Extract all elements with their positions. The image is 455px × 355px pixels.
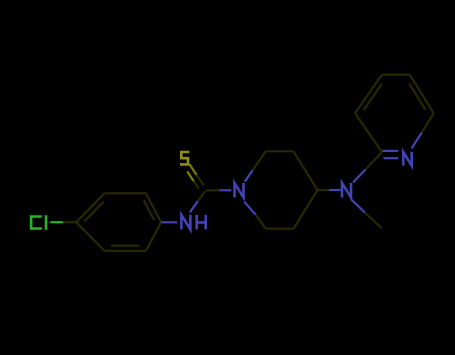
- amine N label: [342, 183, 351, 198]
- benzene double bond inner line C5=C6: [111, 245, 139, 247]
- pyridine bond C5-C4 top edge: [382, 73, 410, 75]
- bond C4 benzene - NH: [161, 221, 177, 223]
- benzene bond C3-C4: [146, 193, 161, 222]
- benzene double bond inner line C1=C2: [84, 202, 103, 222]
- benzene bond C6-C1: [76, 222, 104, 251]
- pyridine bond N1-C6: [412, 113, 434, 148]
- piperidine bond C6-N1: [244, 202, 265, 229]
- benzene bond C2-C3 top edge: [105, 192, 146, 194]
- benzene double bond inner line C3=C4: [144, 200, 154, 220]
- amide NH label: [181, 215, 205, 230]
- bond N amine - methyl CH3: [351, 199, 382, 229]
- bond C4 piperidine - N amine: [318, 189, 341, 191]
- benzene bond C5-C6 bottom edge: [105, 250, 146, 252]
- pyridine bond C6-C5: [410, 75, 434, 114]
- thiocarbonyl C=S double bond line 1: [189, 164, 204, 186]
- benzene bond C4-C5: [146, 222, 161, 251]
- pyridine bond C3-C2: [355, 113, 382, 152]
- thiocarbonyl C=S double bond line 2: [187, 171, 199, 188]
- sulfur atom label S: [180, 152, 189, 164]
- benzene bond C1-C2: [76, 193, 104, 222]
- bond N amine - C2 pyridine: [353, 152, 382, 183]
- piperidine bond N1-C2: [245, 151, 266, 181]
- bond NH-C thiourea: [190, 191, 205, 212]
- piperidine bond C3-C4: [294, 151, 318, 190]
- pyridine C2=N1 double bond line 1: [382, 150, 398, 152]
- piperidine bond C2-C3 top edge: [266, 150, 294, 152]
- piperidine bond C5-C6 bottom edge: [266, 228, 294, 230]
- pyridine double bond inner line C3=C4: [364, 84, 382, 110]
- pyridine bond C4-C3: [355, 75, 382, 114]
- piperidine bond C4-C5: [294, 190, 318, 229]
- bond Cl-C1 benzene: [50, 221, 76, 223]
- bond C thiourea - N1 piperidine: [206, 189, 231, 191]
- pyridine double bond inner line C5=C6: [409, 84, 425, 110]
- chlorine atom label Cl: [31, 215, 46, 230]
- pyridine N1 label: [403, 152, 412, 166]
- pyridine C2=N1 double bond line 2: [383, 157, 398, 159]
- piperidine N1 label: [235, 183, 244, 198]
